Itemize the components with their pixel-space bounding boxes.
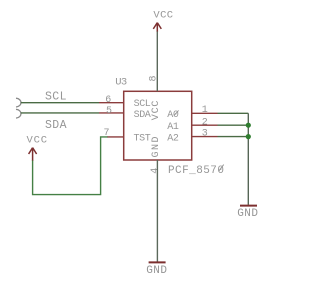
pin stub 7 (TST)	[107, 136, 124, 138]
svg-text:SCL: SCL	[45, 90, 67, 103]
wire SDA net	[21, 112, 99, 114]
pin stub 1 (A0)	[192, 112, 218, 114]
wire VCC to pin 8	[156, 32, 158, 92]
pin stub 5 (SDA)	[99, 112, 124, 114]
slash of zero in PCF_8570	[219, 165, 224, 172]
svg-text:SCL: SCL	[134, 99, 151, 110]
wire A1 to GND net	[218, 124, 249, 126]
svg-text:SDA: SDA	[45, 119, 67, 132]
wire pin 7 to VCC (left)	[33, 137, 108, 195]
svg-text:GND: GND	[146, 265, 167, 277]
connector arc J1 (SCL entry)	[16, 98, 21, 107]
ground symbol GND (right) bar	[240, 205, 257, 207]
supply symbol VCC (left) arrow	[29, 148, 37, 161]
svg-text:U3: U3	[115, 76, 127, 88]
junction dot A1/GND	[246, 123, 251, 128]
supply symbol VCC (top) arrow	[153, 23, 161, 32]
ground symbol GND (bottom) bar	[149, 261, 166, 263]
svg-text:GND: GND	[151, 135, 162, 158]
wire GND net vertical (right)	[247, 113, 249, 205]
svg-text:3: 3	[202, 128, 208, 139]
svg-text:1: 1	[202, 105, 208, 116]
pin stub 3 (A2)	[192, 136, 218, 138]
svg-text:6: 6	[105, 95, 111, 106]
svg-text:SDA: SDA	[134, 110, 151, 121]
svg-text:VCC: VCC	[151, 100, 162, 120]
svg-text:2: 2	[202, 118, 208, 129]
svg-text:TST: TST	[134, 134, 151, 145]
svg-text:PCF_8570: PCF_8570	[168, 165, 224, 177]
svg-text:5: 5	[106, 106, 112, 117]
svg-text:A2: A2	[167, 133, 179, 144]
pin stub 6 (SCL)	[99, 102, 124, 104]
wire A2 to GND net	[218, 136, 249, 138]
IC U3 body (PCF_8570)	[124, 91, 192, 160]
junction dot A2/GND	[246, 134, 251, 139]
connector arc J2 (SDA entry)	[16, 109, 21, 118]
wire A0 to GND net	[218, 112, 249, 114]
svg-text:GND: GND	[237, 208, 258, 220]
svg-text:4: 4	[150, 168, 161, 174]
slash of zero in A0	[174, 110, 179, 115]
wire SCL net	[21, 102, 99, 104]
svg-text:A1: A1	[167, 122, 179, 133]
pin stub 2 (A1)	[192, 124, 218, 126]
wire pin 4 to GND (bottom)	[156, 160, 158, 262]
svg-text:VCC: VCC	[153, 10, 173, 22]
svg-text:VCC: VCC	[27, 135, 48, 147]
